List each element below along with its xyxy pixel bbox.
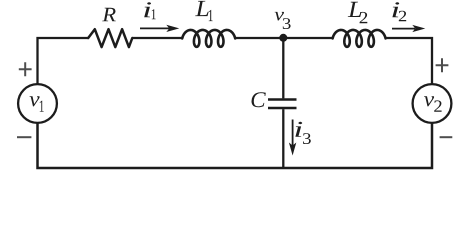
- source v1 circle: [18, 84, 57, 123]
- label v2 subscript 2: [434, 100, 441, 111]
- label i1 subscript 1: [152, 9, 156, 19]
- current arrow i3 (downward): [292, 120, 294, 147]
- label v3 letter: [275, 12, 284, 21]
- label v1 letter: [30, 96, 40, 106]
- label i1 letter: [144, 2, 151, 17]
- capacitor C plates: [268, 98, 297, 100]
- label L2 subscript 2: [360, 12, 368, 23]
- label L2 letter: [348, 2, 362, 17]
- label C: [252, 92, 266, 107]
- wire: L1 to node v3 to L2: [235, 37, 333, 39]
- label i3 letter: [295, 122, 302, 137]
- wire: node to capacitor top plate: [282, 38, 284, 98]
- wire: resistor to L1: [132, 37, 182, 39]
- current arrow i1: [140, 27, 170, 29]
- node v3 dot: [279, 34, 287, 42]
- wire: L2 to top-right corner down to v2: [385, 38, 432, 84]
- label i2 letter: [392, 2, 399, 17]
- plus sign of v1: [19, 62, 32, 76]
- label i2 subscript 2: [399, 11, 406, 21]
- inductor L1: [182, 30, 235, 47]
- wire: v1 top lead + top-left corner to resistor: [38, 38, 89, 84]
- minus sign of v2: [440, 136, 453, 138]
- resistor R: [88, 29, 132, 47]
- label L1 letter: [195, 1, 208, 16]
- inductor L2: [333, 30, 386, 47]
- label R: [102, 8, 116, 21]
- source v2 circle: [413, 84, 452, 123]
- label i3 subscript 3: [303, 133, 311, 144]
- label v1 subscript 1: [40, 101, 44, 112]
- wire: bottom loop (v2 bottom lead, bottom wire, v1 bottom lead): [38, 123, 433, 168]
- label v2 letter: [424, 96, 434, 106]
- label v3 subscript 3: [283, 18, 291, 29]
- current arrow i2: [392, 28, 415, 30]
- plus sign of v2: [436, 58, 449, 72]
- wire: capacitor bottom plate to bottom wire: [282, 109, 284, 168]
- minus sign of v1: [17, 136, 31, 138]
- label L1 subscript 1: [209, 10, 213, 21]
